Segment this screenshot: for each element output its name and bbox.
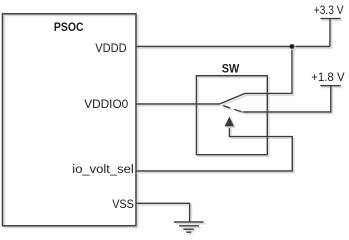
ground bar 1	[174, 221, 204, 223]
wire VDDD pin to +3.3V rail	[136, 46, 330, 48]
+3.3V rail bar	[320, 18, 340, 20]
svg-text:PSOC: PSOC	[54, 20, 84, 34]
svg-text:VDDIO0: VDDIO0	[84, 97, 128, 111]
junction dot on VDDD wire	[290, 44, 295, 49]
SW switch box	[196, 76, 267, 155]
PSOC block U1	[3, 14, 137, 226]
switch alternate position (dashed)	[223, 106, 242, 112]
ground bar 3	[183, 228, 194, 230]
ground bar 4	[186, 231, 191, 233]
ground bar 2	[179, 225, 199, 227]
wire +3.3V bar down to VDDD wire	[329, 19, 331, 47]
wire junction to switch upper throw	[245, 47, 292, 94]
svg-text:SW: SW	[222, 62, 240, 76]
svg-text:+1.8 V: +1.8 V	[311, 70, 345, 84]
wire VSS pin to ground	[136, 203, 190, 222]
switch control arrowhead	[225, 117, 235, 127]
svg-text:+3.3 V: +3.3 V	[314, 3, 344, 17]
svg-text:VDDD: VDDD	[95, 41, 127, 55]
svg-text:VSS: VSS	[112, 197, 134, 211]
switch arm (upper position)	[220, 93, 246, 104]
+1.8V rail bar	[320, 85, 340, 87]
svg-text:io_volt_sel: io_volt_sel	[72, 162, 134, 176]
wire lower throw to +1.8V rail	[243, 86, 331, 112]
wire io_volt_sel to switch control arrow	[136, 126, 292, 171]
wire VDDIO0 pin to switch pole	[136, 103, 220, 105]
